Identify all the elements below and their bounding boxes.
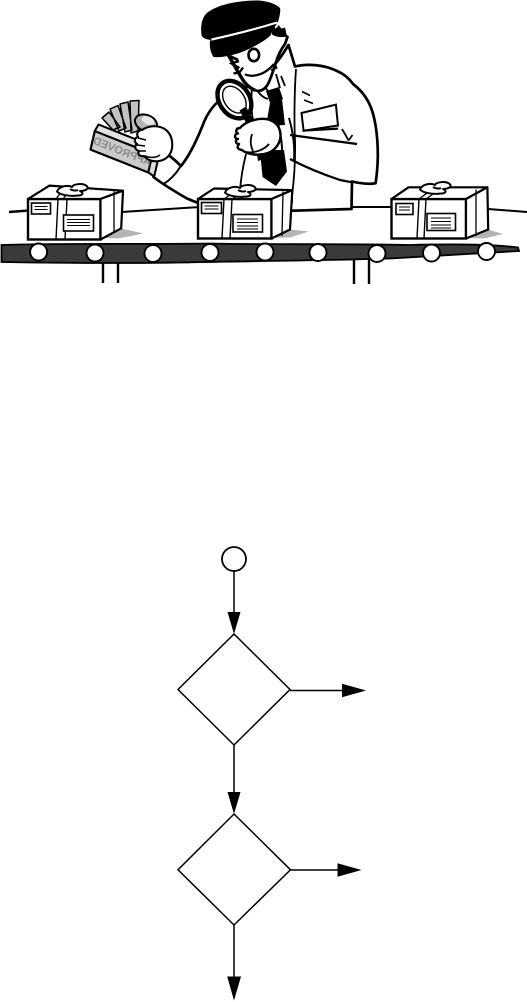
neck right line [265,86,274,96]
conveyor legs right pair [354,259,369,284]
stamp hand [135,126,172,161]
diamond decision 1 [178,634,290,745]
magnifier handle butt [256,148,264,161]
brim-hair gap [271,24,278,35]
wink eye [232,61,244,74]
table back edge line middle [122,207,200,212]
box1 front face [28,199,101,240]
box3 ribbon front [417,199,426,239]
stamp thumb [145,155,160,157]
magnifier handle [240,107,256,128]
box3 large label [427,214,456,231]
box3 ribbon top+side [419,190,476,237]
box3 side face [466,187,488,238]
stamp knob [132,111,159,134]
arrowhead into diamond2 [228,792,241,814]
magnifier ring inner [218,82,251,118]
jaw thick line [225,49,255,90]
box1 bow [57,184,88,196]
box2 small label [202,203,222,214]
box3 top face [392,187,488,199]
box1 small label [32,203,51,214]
stamp end face [148,154,158,177]
lapel notch zigzag [302,92,313,104]
box2 side face [272,190,293,238]
box1 large label [64,215,94,231]
stamp knob highlight [140,114,155,126]
box2 large label [233,215,263,233]
smile end tick [271,63,277,71]
cap crown [201,1,280,41]
right cuff lines [277,118,294,161]
arrowhead right 2 [338,863,362,876]
arrowhead into diamond1 [228,612,241,634]
wire diamond2 right [291,869,340,871]
cuff seam left arm [163,167,181,185]
box1 shadow [103,229,144,239]
box2 ribbon front [222,199,232,239]
tie upper [266,99,285,126]
box3 front face [392,199,467,239]
right lapel line [292,69,296,203]
eyebrow wink [228,55,239,60]
hair tuft [272,25,287,37]
wire start to diamond1 [233,571,235,615]
table back edge line far right [488,209,527,212]
box2 bow [225,185,256,197]
conveyor rollers [30,243,495,262]
shirt collar right [276,74,285,88]
pocket card [302,105,339,131]
armpit crease [342,129,353,141]
box3 small label [396,204,413,215]
diamond decision 2 [178,814,291,925]
shirt collar left [257,90,268,99]
stamp hand fingers [137,138,146,151]
left lapel line [251,86,253,122]
tie knot [266,87,283,103]
conveyor band [2,244,520,264]
stamp block face [91,131,153,173]
wire diamond2 down [233,925,235,978]
magnifier ring [210,74,258,124]
box2 ribbon top+side [224,191,283,236]
fist [235,119,281,155]
tie lower [260,150,287,186]
box2 center front face [198,199,272,239]
box1 side face [101,191,124,240]
right forearm top edge [290,135,357,144]
box1 ribbon top+side [56,190,114,233]
conveyor legs left pair [103,263,118,283]
cap brim [210,24,278,58]
table back edge line left [9,211,29,213]
fist thumb curve [246,134,269,152]
cap highlight separator [212,23,278,40]
smile [245,64,274,76]
stamp fan [102,101,139,134]
box1 top face [28,186,123,199]
arrowhead right 1 [342,684,366,697]
right forearm bottom edge [290,159,352,182]
flowchart start circle [222,547,246,571]
box3 shadow [467,230,503,239]
face [225,26,288,91]
box3 bow [420,182,451,194]
left coat edge below fist [240,154,246,190]
box2 top face [198,189,292,200]
box1 ribbon front [56,199,67,240]
arrowhead down exit [227,977,241,1001]
pocket flap line [303,129,339,131]
stamp top strip [95,125,157,154]
round eye [249,49,260,61]
box2 shadow [272,230,309,239]
wire diamond1 right [290,690,343,692]
inspector coat body [153,45,377,212]
wire diamond1 to diamond2 [233,745,235,794]
table back edge line right of coat [350,206,393,208]
